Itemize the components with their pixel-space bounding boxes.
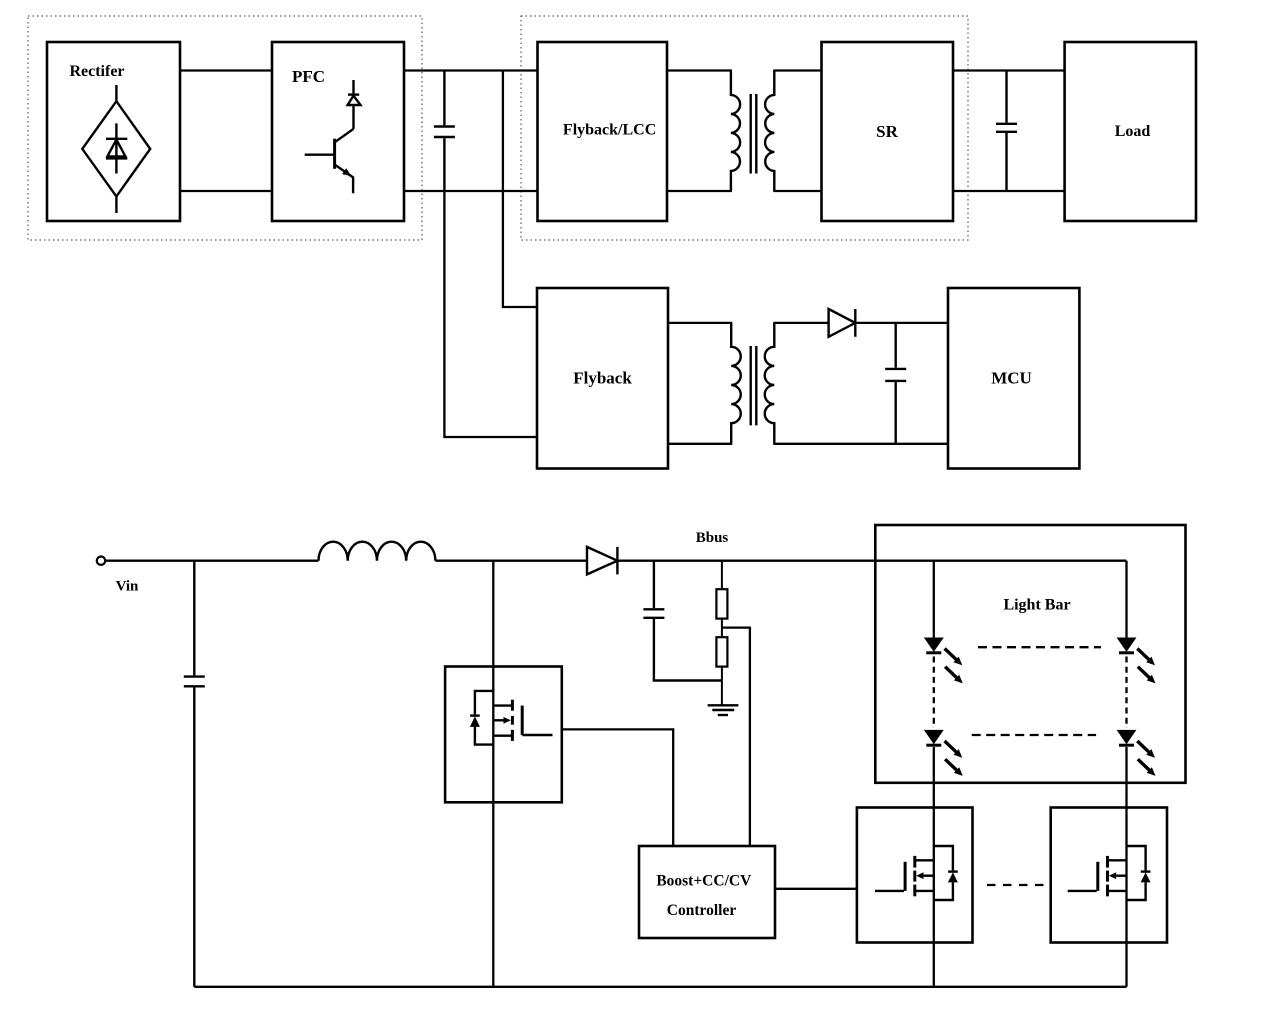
LED string left: upper lead <box>933 561 935 638</box>
bridge rectifier symbol inside Rectifer <box>82 85 150 213</box>
wire PFC to Flyback/LCC (bottom) <box>404 190 538 192</box>
wire D1 to MCU (top) <box>855 322 948 324</box>
inductor L1 <box>319 542 436 561</box>
LED D5 <box>1118 638 1135 653</box>
diode D2 <box>587 547 617 575</box>
output capacitor C2 <box>996 71 1017 192</box>
LED string right: lower lead through Q3 to bottom bus <box>1125 747 1127 987</box>
dashed link between strings (upper) <box>978 646 1101 648</box>
LED D4 emission arrows <box>945 741 963 776</box>
wire inductor to diode D2 <box>435 560 587 562</box>
ground <box>708 705 739 715</box>
block Flyback <box>537 288 668 469</box>
svg-text:Load: Load <box>1115 123 1151 140</box>
wire T1 secondary to SR (bottom) <box>773 190 821 192</box>
wire Rectifer to PFC (bottom) <box>180 190 272 192</box>
svg-text:Rectifer: Rectifer <box>69 63 124 80</box>
LED D6 <box>1118 731 1135 746</box>
wire Flyback to T2 primary (top) <box>668 322 732 324</box>
svg-text:Bbus: Bbus <box>696 530 729 546</box>
block Flyback/LCC <box>538 42 668 221</box>
Light Bar box <box>875 525 1185 783</box>
LED string left: lower lead through Q2 to bottom bus <box>933 747 935 987</box>
block Load <box>1065 42 1196 221</box>
wire: divider tap to controller <box>722 628 750 846</box>
LED D3 <box>925 638 942 653</box>
wire: aux feed from bus node down to Flyback input (top) <box>503 71 537 308</box>
svg-text:Controller: Controller <box>667 902 737 919</box>
dotted group box: isolated DC-DC stage <box>521 16 968 240</box>
wire T2 secondary to diode D1 <box>773 322 828 324</box>
transistor with series diode inside PFC <box>305 80 361 193</box>
svg-text:Flyback: Flyback <box>573 369 632 388</box>
MOSFET Q1 (boost switch) <box>445 667 562 803</box>
svg-text:Light Bar: Light Bar <box>1003 597 1070 614</box>
LED D4 <box>925 731 942 746</box>
block Rectifer <box>47 42 180 221</box>
wire Rectifer to PFC (top) <box>180 69 272 71</box>
block SR <box>822 42 954 221</box>
dashed ellipsis between Q2 and Q3 <box>987 884 1045 886</box>
LED D6 emission arrows <box>1137 741 1155 776</box>
MOSFET Q2 (string switch) <box>857 808 973 943</box>
wire SR to Load (top) <box>953 69 1065 71</box>
block PFC <box>272 42 404 221</box>
capacitor C3 <box>885 323 906 444</box>
bottom bus wire <box>194 986 1126 988</box>
dashed link between strings (lower) <box>972 734 1096 736</box>
LED string left: dashed middle segment <box>933 657 935 729</box>
transformer T2 <box>731 323 774 444</box>
terminal Vin <box>97 557 105 565</box>
wire: boost switch node vertical through Q1 to bottom bus <box>492 561 494 987</box>
wire Vin to inductor <box>105 560 318 562</box>
svg-text:PFC: PFC <box>292 67 325 86</box>
wire Q1 gate to controller <box>562 729 673 846</box>
LED string right: upper lead <box>1125 561 1127 638</box>
wire controller to Q2 gate <box>775 888 857 890</box>
svg-text:Vin: Vin <box>116 578 139 594</box>
svg-text:Flyback/LCC: Flyback/LCC <box>563 121 656 138</box>
wire: aux feed return to Flyback input (bottom) <box>444 191 537 437</box>
bus capacitor C1 <box>434 71 455 192</box>
svg-text:Boost+CC/CV: Boost+CC/CV <box>656 873 752 890</box>
diode D1 <box>829 309 856 337</box>
svg-text:MCU: MCU <box>991 369 1032 388</box>
wire Flyback/LCC to T1 primary (bottom) <box>667 190 732 192</box>
LED string right: dashed middle segment <box>1125 657 1127 729</box>
wire SR to Load (bottom) <box>953 190 1065 192</box>
transformer T1 <box>731 71 774 192</box>
svg-text:SR: SR <box>876 122 898 141</box>
capacitor C5 <box>643 561 722 681</box>
block MCU <box>948 288 1079 469</box>
wire PFC to Flyback/LCC (top) <box>404 69 538 71</box>
resistor R1 <box>716 561 727 638</box>
MOSFET Q3 (string switch) <box>1051 808 1167 943</box>
block Boost+CC/CV Controller <box>639 846 775 938</box>
LED D5 emission arrows <box>1137 649 1155 684</box>
dotted group box: rectifier + PFC stage <box>28 16 422 240</box>
wire Flyback to T2 primary (bottom) <box>668 443 732 445</box>
resistor R2 <box>716 637 727 704</box>
input capacitor C4 <box>184 561 205 987</box>
wire Bbus: D2 to Light Bar right string <box>617 560 1126 562</box>
LED D3 emission arrows <box>945 649 963 684</box>
wire T2 secondary to MCU (bottom) <box>773 443 948 445</box>
wire T1 secondary to SR (top) <box>773 69 821 71</box>
wire Flyback/LCC to T1 primary (top) <box>667 69 732 71</box>
